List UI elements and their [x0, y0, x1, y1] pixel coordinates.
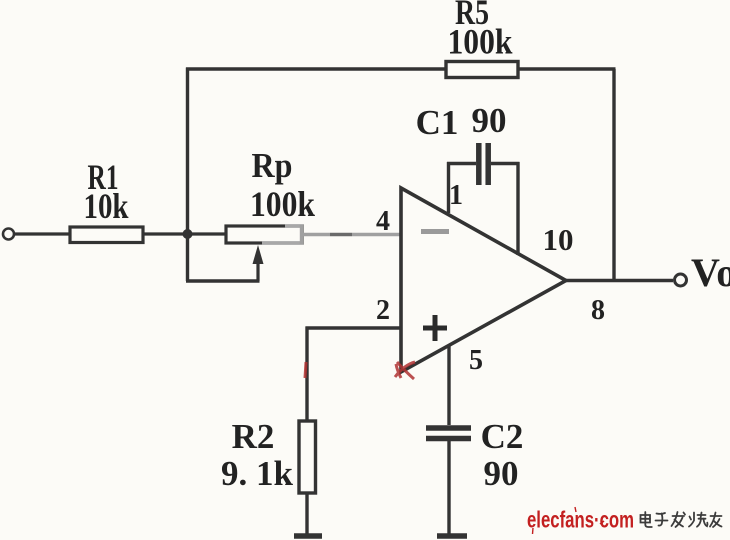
ground R2: [294, 533, 322, 539]
wire node A to Rp: [188, 232, 227, 235]
svg-text:C2: C2: [481, 417, 524, 456]
wire R1 to node A: [143, 232, 188, 235]
svg-text:100k: 100k: [448, 22, 513, 62]
svg-text:4: 4: [376, 206, 390, 237]
watermark elecfans.com: [527, 507, 634, 535]
svg-text:10: 10: [543, 222, 574, 257]
svg-text:9. 1k: 9. 1k: [221, 454, 294, 493]
wire Rp to pin 4 faded: [302, 233, 400, 236]
op-amp U1: [401, 188, 566, 372]
svg-text:90: 90: [472, 101, 507, 140]
wire R2 to ground: [305, 493, 308, 535]
svg-text:Vo: Vo: [691, 250, 730, 295]
wire output: [563, 279, 673, 283]
友: [711, 515, 722, 517]
red pen mark on R2 wire: [305, 362, 306, 378]
烧: [690, 517, 692, 520]
svg-text:90: 90: [484, 454, 519, 493]
minus input symbol: [421, 229, 449, 234]
resistor R2: [299, 421, 316, 493]
svg-text:5: 5: [469, 345, 483, 376]
svg-text:Rp: Rp: [252, 146, 293, 185]
wire right feedback vertical: [612, 69, 615, 282]
wire top horizontal to R5: [186, 67, 447, 70]
svg-text:C1: C1: [416, 103, 459, 142]
input terminal: [3, 229, 14, 240]
resistor R5: [446, 62, 518, 78]
wire input to R1: [14, 232, 70, 235]
potentiometer Rp: [186, 225, 303, 281]
wire pin 2: [306, 327, 402, 422]
svg-text:100k: 100k: [250, 184, 315, 224]
svg-text:R2: R2: [232, 417, 275, 456]
capacitor C1: [447, 143, 520, 255]
子: [657, 512, 666, 515]
ground C2: [437, 533, 467, 539]
svg-text:2: 2: [376, 295, 390, 326]
svg-text:1: 1: [449, 180, 463, 211]
wire pin 5 to C2: [447, 345, 450, 425]
plus input symbol: [423, 315, 447, 341]
svg-text:10k: 10k: [84, 186, 129, 226]
电: [641, 515, 651, 523]
output terminal: [675, 274, 687, 286]
resistor R1: [70, 227, 143, 243]
svg-text:elecfans·com: elecfans·com: [527, 507, 634, 533]
watermark chinese 电子发烧友: [641, 512, 722, 527]
wire node A up left feedback vertical: [186, 68, 189, 235]
capacitor C2: [426, 428, 471, 535]
发: [673, 515, 685, 517]
svg-text:8: 8: [591, 295, 605, 326]
red pen mark at op-amp corner: [395, 362, 415, 379]
node A junction: [183, 229, 193, 239]
wire R5 to top right corner: [518, 67, 616, 70]
